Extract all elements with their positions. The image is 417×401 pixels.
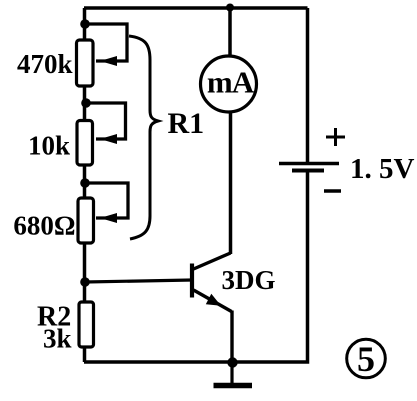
svg-text:10k: 10k: [28, 131, 70, 161]
svg-text:680Ω: 680Ω: [13, 211, 75, 241]
svg-text:5: 5: [357, 339, 375, 379]
svg-text:470k: 470k: [17, 49, 73, 79]
svg-text:R1: R1: [168, 107, 205, 140]
svg-text:3k: 3k: [43, 324, 72, 354]
svg-text:1. 5V: 1. 5V: [350, 153, 415, 185]
svg-text:3DG: 3DG: [222, 265, 276, 295]
svg-text:mA: mA: [207, 65, 255, 100]
